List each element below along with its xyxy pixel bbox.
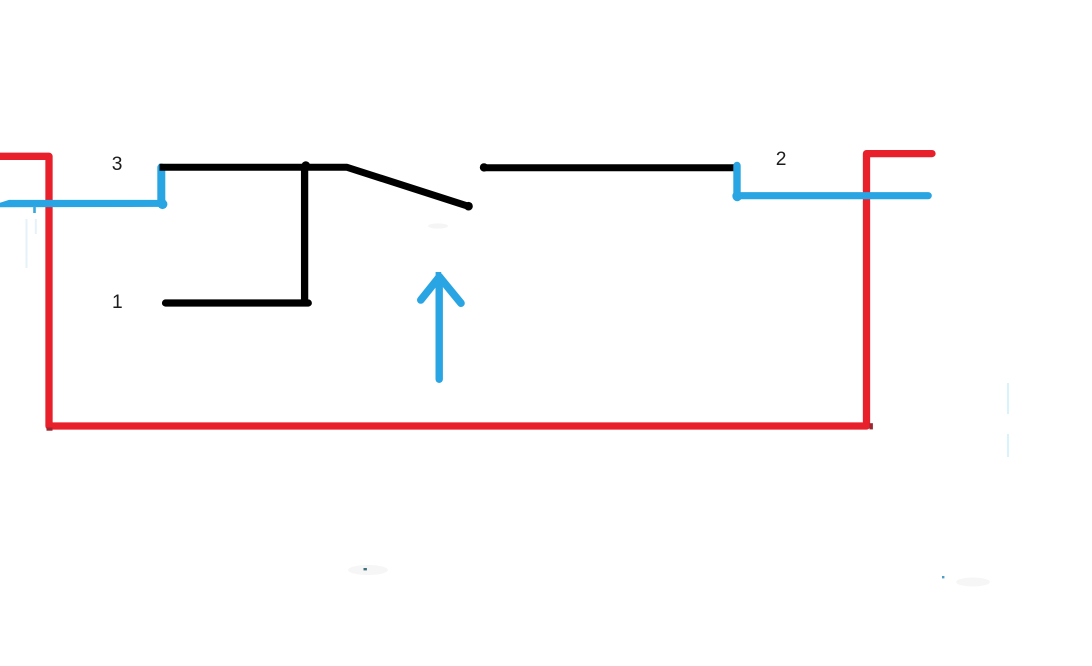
svg-text:2: 2 <box>776 149 787 170</box>
faint smudge streak left <box>27 219 36 268</box>
wire red battery loop <box>0 154 932 426</box>
node dark nub bottom-right corner <box>870 423 873 429</box>
node blue junction blob left <box>158 199 168 209</box>
node dark nub bottom-left corner <box>47 428 53 431</box>
faint grey smear under switch tip <box>428 223 448 228</box>
node blue drip below left wire <box>33 206 36 213</box>
wire black vertical from junction to terminal 1 <box>301 166 308 303</box>
arrow cyan actuator <box>421 277 461 380</box>
wire blue left horizontal <box>0 200 166 207</box>
node blue junction blob right <box>732 192 742 202</box>
wire black terminal 1 horizontal <box>166 299 309 306</box>
wire blue left vertical (terminal 3) <box>157 168 165 205</box>
node arrow tip nub <box>436 272 442 278</box>
faint grey smear bottom centre <box>348 565 388 575</box>
node tiny blue speck bottom right <box>942 576 944 578</box>
svg-text:1: 1 <box>112 292 123 313</box>
faint grey smear bottom right <box>956 578 990 587</box>
faint smudge streak right <box>1007 383 1009 457</box>
wire blue right vertical (terminal 2) <box>733 166 740 196</box>
node switch lever tip blob <box>464 202 473 211</box>
node junction dot on terminal 3 wire <box>302 161 311 170</box>
node tiny teal speck bottom centre <box>364 568 367 570</box>
node rounded start of terminal 2 wire <box>480 163 488 171</box>
wire black terminal 3 horizontal + switch lever diagonal <box>160 167 470 206</box>
wire blue right horizontal <box>736 192 928 199</box>
wire black terminal 2 horizontal <box>484 164 736 171</box>
svg-text:3: 3 <box>112 154 123 175</box>
